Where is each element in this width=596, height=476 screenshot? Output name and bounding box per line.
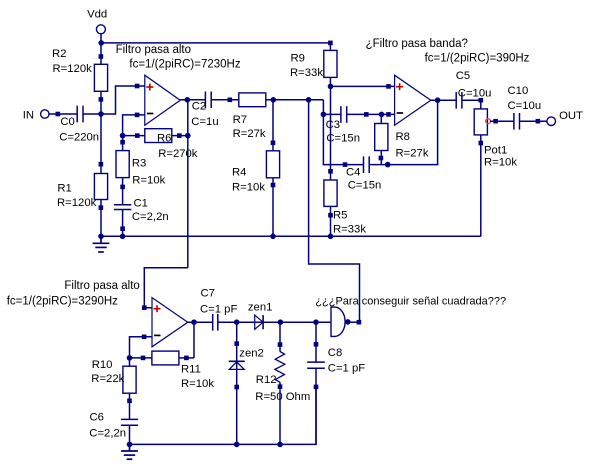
- wire U1 output: [180, 99, 205, 101]
- wire R12 column bottom: [279, 382, 281, 444]
- wire ground rail top section: [101, 235, 481, 237]
- wire zen1 to gate: [263, 321, 331, 323]
- resistor R6: [123, 129, 198, 160]
- node C1 rail: [120, 234, 126, 240]
- node R12 rail: [277, 442, 283, 448]
- wire Pot1 wiper to C10: [490, 120, 514, 122]
- node U1 output junction: [185, 97, 191, 103]
- node C8 top junction: [313, 319, 319, 325]
- wire C8 column bottom: [315, 368, 317, 444]
- wire R4 column: [272, 100, 274, 143]
- svg-text:R=120k: R=120k: [53, 63, 93, 75]
- svg-text:R=33k: R=33k: [290, 67, 323, 79]
- resistor R7: [233, 93, 266, 140]
- node zen2 top junction: [234, 319, 240, 325]
- svg-text:Filtro pasa alto: Filtro pasa alto: [64, 280, 139, 292]
- wire R7 to node B: [266, 99, 324, 101]
- wire R1 to ground rail: [100, 208, 102, 237]
- svg-text:C2: C2: [192, 101, 206, 113]
- resistor R9: [290, 41, 337, 87]
- wire U3 - input path: [130, 337, 153, 358]
- capacitor C2: [191, 92, 218, 129]
- port OUT: [547, 110, 583, 126]
- svg-text:R=27k: R=27k: [233, 128, 266, 140]
- node U3 output: [191, 319, 197, 325]
- wire node B corner to node X: [322, 100, 324, 115]
- svg-text:C0: C0: [60, 116, 74, 128]
- wire node X down to C4 row: [323, 114, 345, 164]
- wire C2 to R7: [211, 99, 239, 101]
- resistor R1: [57, 162, 108, 210]
- op-amp U2: [395, 75, 431, 125]
- svg-text:R1: R1: [57, 182, 71, 194]
- capacitor C5: [456, 70, 492, 109]
- port IN: [23, 110, 49, 122]
- node U2 - input: [379, 112, 385, 118]
- node R6 right: [185, 133, 191, 139]
- resistor R4: [232, 141, 280, 194]
- svg-text:C3: C3: [326, 119, 340, 131]
- resistor R8: [375, 114, 429, 164]
- wire C3 to U2 - input: [347, 113, 395, 115]
- resistor R12: [255, 352, 310, 404]
- svg-text:zen2: zen2: [239, 348, 263, 360]
- wire C8 column top: [315, 322, 317, 362]
- wire R11 to U3 output: [193, 322, 195, 358]
- svg-text:Vdd: Vdd: [87, 8, 107, 20]
- node R5 rail: [328, 234, 334, 240]
- resistor R5: [324, 169, 366, 236]
- svg-text:C=2,2n: C=2,2n: [89, 428, 126, 440]
- svg-text:R7: R7: [233, 114, 247, 126]
- svg-text:R12: R12: [256, 374, 277, 386]
- wire bottom rail: [130, 387, 317, 445]
- svg-text:C8: C8: [328, 347, 342, 359]
- svg-text:fc=1/(2piRC)=390Hz: fc=1/(2piRC)=390Hz: [425, 52, 530, 64]
- svg-text:C=1u: C=1u: [191, 116, 218, 128]
- svg-text:R=50 Ohm: R=50 Ohm: [255, 391, 310, 403]
- wire U2 output: [430, 99, 456, 101]
- svg-text:C=2,2n: C=2,2n: [132, 211, 169, 223]
- wire + input path: [101, 86, 145, 114]
- wire R5 to rail: [330, 215, 332, 236]
- power Vdd port circle: [96, 25, 105, 34]
- svg-text:R2: R2: [52, 48, 66, 60]
- wire R12 column top: [279, 322, 281, 351]
- node R4 rail: [270, 234, 276, 240]
- wire R6 node to R3: [122, 136, 124, 143]
- resistor R11: [130, 351, 215, 390]
- svg-text:C7: C7: [201, 287, 215, 299]
- node zen1 right: [278, 319, 284, 325]
- svg-text:R=10k: R=10k: [181, 378, 214, 390]
- diode zen2: [229, 348, 264, 370]
- svg-text:R10: R10: [92, 359, 113, 371]
- svg-text:R=270k: R=270k: [158, 148, 198, 160]
- svg-text:IN: IN: [23, 110, 34, 122]
- node ground rail left: [98, 234, 104, 240]
- wire R2 to node A: [100, 99, 102, 114]
- svg-text:C=15n: C=15n: [348, 180, 382, 192]
- capacitor C10: [508, 85, 542, 130]
- node Vdd junction: [98, 40, 104, 46]
- wire C10 to OUT: [520, 120, 548, 122]
- wire - input path: [123, 115, 145, 136]
- svg-text:R9: R9: [291, 53, 305, 65]
- svg-text:C6: C6: [90, 411, 104, 423]
- svg-text:zen1: zen1: [248, 302, 273, 314]
- wire zen2 column top: [236, 322, 238, 369]
- capacitor C3: [323, 106, 360, 144]
- resistor R3: [116, 140, 166, 189]
- wire U1 out crossover to U3 + input: [144, 268, 188, 308]
- capacitor C6: [89, 401, 138, 445]
- svg-text:Filtro pasa alto: Filtro pasa alto: [116, 44, 191, 56]
- svg-text:C=15n: C=15n: [326, 132, 360, 144]
- node R9 bottom: [328, 84, 334, 90]
- node C (branch down): [306, 97, 312, 103]
- capacitor C1: [114, 187, 169, 231]
- svg-text:C5: C5: [456, 70, 470, 82]
- wire bias down to R5: [330, 86, 332, 171]
- wire Pot1 bottom to rail: [480, 143, 482, 236]
- resistor R10: [91, 358, 136, 403]
- node X: [321, 112, 327, 118]
- wire R4 to rail: [272, 185, 274, 236]
- wire C7 to zen1: [218, 321, 263, 323]
- svg-text:fc=1/(2piRC)=7230Hz: fc=1/(2piRC)=7230Hz: [129, 59, 240, 71]
- wire C0 to node A: [83, 113, 101, 115]
- potentiometer Pot1: [474, 100, 517, 168]
- op-amp U3: [152, 298, 188, 347]
- svg-text:Pot1: Pot1: [484, 145, 507, 157]
- svg-text:C1: C1: [134, 198, 148, 210]
- diode zen1: [248, 302, 273, 330]
- wire node A to R1: [100, 114, 102, 164]
- svg-text:R6: R6: [157, 132, 171, 144]
- node U2 output: [435, 97, 441, 103]
- ground bottom: [121, 444, 138, 459]
- svg-text:¿¿¿Para conseguir señal cuadra: ¿¿¿Para conseguir señal cuadrada???: [315, 295, 506, 307]
- wire C4 to U2 output feedback: [369, 100, 437, 164]
- svg-text:R11: R11: [181, 364, 201, 376]
- node R6 left: [120, 133, 126, 139]
- svg-text:C=220n: C=220n: [59, 132, 99, 144]
- wire IN to C0: [49, 113, 77, 115]
- svg-text:¿Filtro pasa banda?: ¿Filtro pasa banda?: [366, 38, 468, 50]
- op-amp U1: [145, 75, 180, 125]
- resistor R2: [52, 48, 108, 102]
- node zen2 rail: [234, 442, 240, 448]
- capacitor C8: [307, 347, 365, 375]
- svg-text:R=10k: R=10k: [132, 175, 165, 187]
- svg-text:R=33k: R=33k: [333, 224, 366, 236]
- svg-text:fc=1/(2piRC)=3290Hz: fc=1/(2piRC)=3290Hz: [7, 295, 118, 307]
- capacitor C0: [59, 106, 99, 144]
- wire Vdd stub: [100, 34, 102, 57]
- svg-text:R=22k: R=22k: [91, 373, 124, 385]
- svg-text:R=10k: R=10k: [232, 182, 265, 194]
- node C6 rail ground: [127, 442, 133, 448]
- node A: [98, 111, 104, 117]
- wire C1 to rail: [122, 229, 124, 237]
- svg-text:R8: R8: [396, 131, 410, 143]
- svg-text:C4: C4: [346, 166, 360, 178]
- svg-text:R5: R5: [333, 210, 347, 222]
- svg-text:C10: C10: [508, 85, 529, 97]
- svg-text:C=10u: C=10u: [458, 88, 492, 100]
- node B (R7/R4): [271, 97, 277, 103]
- svg-text:C=1 pF: C=1 pF: [328, 363, 365, 375]
- svg-text:R4: R4: [232, 167, 246, 179]
- wire R9 node to U2 + input: [331, 85, 395, 87]
- node C4 row: [385, 162, 391, 168]
- svg-text:OUT: OUT: [559, 110, 583, 122]
- wire U1 output down to bottom section: [187, 100, 189, 268]
- svg-text:R=120k: R=120k: [57, 197, 97, 209]
- svg-text:R=27k: R=27k: [396, 147, 429, 159]
- wire Vdd rail to R9: [101, 42, 330, 44]
- svg-text:R3: R3: [132, 158, 146, 170]
- svg-text:C=1 pF: C=1 pF: [200, 304, 237, 316]
- capacitor C4: [345, 156, 381, 191]
- wire long feedback from node C down: [309, 100, 360, 322]
- svg-text:R=10k: R=10k: [484, 157, 517, 169]
- wire C5 to Pot1: [462, 99, 481, 101]
- gate inverter U4: [331, 307, 361, 336]
- capacitor C7: [200, 287, 237, 330]
- wire zen2 column bottom: [236, 369, 238, 444]
- node R10 junction: [127, 355, 133, 361]
- ground top-left: [93, 236, 110, 252]
- svg-text:C=10u: C=10u: [508, 100, 542, 112]
- wire U3 output: [188, 321, 213, 323]
